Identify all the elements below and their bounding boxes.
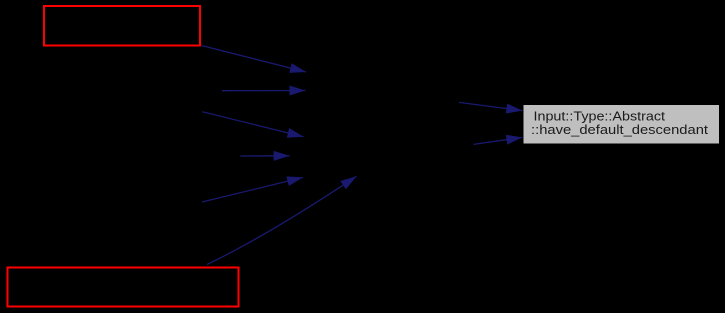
edge h: hidden center -> gray node (lower) <box>474 137 523 144</box>
svg-text:::have_default_descendant: ::have_default_descendant <box>531 122 708 137</box>
node: bottom-left red box (truncated caller) <box>8 268 239 307</box>
edge a: top red box -> hidden center <box>202 46 307 73</box>
edge f: bottom red box -> hidden center (curved) <box>207 176 357 264</box>
node: Input::Type::Abstract::have_default_descendant (gray) <box>524 105 720 144</box>
edge d <box>240 155 289 157</box>
edge c <box>202 112 303 137</box>
node: top-left red box (truncated caller) <box>44 6 200 46</box>
edge g: hidden center -> gray node (upper) <box>459 102 522 110</box>
edge b <box>222 90 306 92</box>
edge e <box>202 177 303 202</box>
